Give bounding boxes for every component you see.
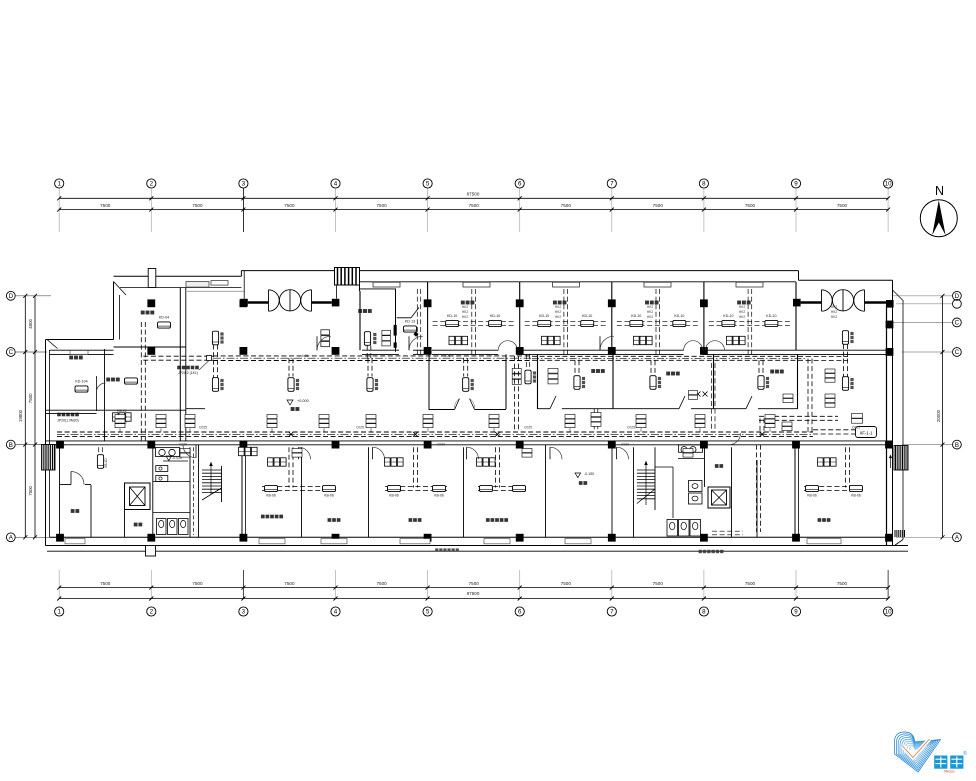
- storage room label (mimic): [71, 509, 75, 513]
- shaft vertical duct: [514, 356, 516, 430]
- bottom band partition x=368: [368, 447, 370, 537]
- svg-text:7500: 7500: [100, 203, 111, 208]
- svg-text:2: 2: [150, 181, 154, 188]
- label stack above XF box: [852, 414, 863, 419]
- svg-text:7500: 7500: [28, 485, 33, 495]
- svg-text:3: 3: [242, 181, 246, 188]
- svg-text:7500: 7500: [100, 581, 111, 586]
- left end unit below B wall: [97, 455, 103, 469]
- room label water pump: [69, 356, 73, 360]
- svg-text:1: 1: [57, 181, 61, 188]
- canopy edge gray line: [187, 290, 244, 292]
- hall level mark: [287, 400, 293, 405]
- wc2 east wall: [731, 447, 733, 537]
- corridor duct label stacks above: [115, 415, 125, 432]
- svg-text:7500: 7500: [745, 203, 756, 208]
- bottom band partition x=463.5: [463, 447, 465, 537]
- doors in B wall lower rooms: [299, 447, 311, 459]
- right vertical dimension line: [942, 296, 944, 538]
- bottom dimension segment line: [59, 587, 888, 589]
- svg-text:7500: 7500: [837, 203, 848, 208]
- middle band room labels: [591, 369, 595, 373]
- building east wall (main, thick): [886, 305, 888, 546]
- bottom band partition x=757: [756, 460, 758, 537]
- middle band room units: [574, 376, 580, 390]
- gas valve junction box: [207, 356, 212, 361]
- svg-text:C025: C025: [627, 426, 635, 430]
- water pump room south wall: [46, 409, 187, 411]
- svg-text:HK2: HK2: [555, 315, 561, 319]
- water pump room unit KD-104: [75, 386, 88, 392]
- bottom text below wall: [699, 550, 702, 553]
- north arrow circle: [920, 200, 957, 237]
- upper-left corner miter: [114, 282, 127, 296]
- bottom room labels: [261, 515, 265, 519]
- entrance2 west jamb column: [793, 299, 801, 307]
- svg-text:®: ®: [963, 750, 967, 757]
- double doors in C wall: [498, 341, 508, 351]
- top grid stub lines: [58, 188, 60, 232]
- svg-text:C: C: [955, 349, 960, 356]
- svg-text:10: 10: [885, 609, 892, 616]
- svg-text:7500: 7500: [653, 203, 664, 208]
- lower-left block corner miter: [47, 340, 58, 349]
- storage room east wall: [90, 485, 92, 537]
- svg-text:KB-06: KB-06: [807, 494, 817, 498]
- vestibule2 L duct to corridor: [807, 359, 809, 435]
- svg-text:7500: 7500: [561, 581, 572, 586]
- svg-text:5: 5: [426, 609, 430, 616]
- svg-text:19800: 19800: [18, 409, 23, 422]
- top band office partitions: [427, 282, 429, 350]
- svg-text:-0.150: -0.150: [584, 472, 594, 476]
- storage room north wall w/ door: [60, 484, 72, 486]
- bottom band partition x=301: [301, 447, 303, 537]
- riser label stacks: [591, 413, 601, 417]
- middle band partitions: [537, 354, 539, 409]
- valve crosses on corridor duct: [289, 432, 294, 437]
- svg-text:HK2: HK2: [647, 310, 653, 314]
- facade window upper-left 1: [186, 282, 209, 288]
- office4 stack labels: [382, 330, 391, 335]
- single doors in C wall: [409, 336, 423, 350]
- wc2 stalls: [667, 520, 678, 537]
- lobby2 door arc: [729, 433, 741, 445]
- svg-text:KD-104: KD-104: [75, 380, 87, 384]
- gas valve note 1: [57, 413, 61, 417]
- svg-text:JP20.2 (1K1): JP20.2 (1K1): [178, 371, 198, 375]
- bottom wall (row A) inner: [50, 536, 893, 538]
- vestibule1 east wall stub: [336, 285, 338, 299]
- walkway south wall stub: [186, 408, 205, 410]
- top dimension line total: [59, 197, 888, 199]
- hall riser at x=291: [288, 358, 290, 376]
- stair1 cut line: [202, 488, 222, 500]
- top grid axis circles 1-10: [55, 179, 64, 188]
- svg-text:4.05: 4.05: [302, 354, 309, 358]
- svg-text:JP20(1.0M20): JP20(1.0M20): [57, 419, 78, 423]
- door water pump room: [97, 383, 106, 392]
- svg-text:KD-10: KD-10: [582, 314, 592, 318]
- logo heart mark: [895, 732, 941, 772]
- entrance1 west jamb column: [240, 299, 248, 307]
- svg-text:C025: C025: [852, 426, 860, 430]
- top band office fan coil units: [446, 320, 459, 326]
- wc2 urinals: [689, 481, 703, 492]
- hall riser at x=215: [213, 345, 215, 378]
- elevator2 shaft: [708, 487, 730, 508]
- svg-text:HK2: HK2: [462, 310, 468, 314]
- svg-text:KB-06: KB-06: [434, 494, 444, 498]
- svg-text:JINGLE: JINGLE: [943, 770, 954, 774]
- svg-text:D: D: [955, 293, 960, 300]
- top dimension ticks: [57, 196, 61, 200]
- louvre grille block at grid4: [335, 268, 360, 286]
- east wall columns: [886, 321, 894, 329]
- stair2 arrow: [644, 461, 648, 465]
- north arrow needle: [932, 200, 945, 235]
- facade window upper-left 2: [211, 281, 228, 286]
- svg-text:7500: 7500: [837, 581, 848, 586]
- office4 fan unit vertical: [364, 332, 370, 346]
- storage room west wall: [59, 447, 61, 537]
- bottom text below wall center: [435, 548, 438, 551]
- left axis leader lines: [15, 295, 51, 297]
- service duct lower right: [712, 530, 743, 532]
- svg-text:3: 3: [242, 609, 246, 616]
- left office unit KB-03: [125, 378, 138, 384]
- svg-text:XF-1-1: XF-1-1: [860, 430, 873, 435]
- east wall corner miter: [893, 290, 904, 301]
- north facade east step: [798, 271, 800, 281]
- svg-text:87500: 87500: [467, 192, 480, 197]
- hall main duct: [213, 355, 531, 357]
- bottom band partition x=612: [611, 447, 613, 537]
- svg-text:B3-4D: B3-4D: [104, 458, 108, 468]
- wc1 urinal fixtures: [156, 466, 168, 472]
- manifold stacks in top offices: [449, 336, 455, 344]
- svg-text:7500: 7500: [469, 203, 480, 208]
- middle rooms main duct run: [532, 355, 806, 357]
- bottom grid stub lines: [58, 570, 60, 599]
- bottom wall windows: [65, 539, 85, 544]
- gas valve note hall: [177, 366, 181, 370]
- right axis circle A: [953, 533, 962, 542]
- bottom band partition x=545.5: [545, 445, 547, 537]
- svg-text:87500: 87500: [467, 591, 480, 596]
- wc1 basins: [159, 449, 165, 455]
- east stair hatch block: [894, 446, 908, 471]
- meeting room double door leaves: [455, 399, 460, 410]
- office4 inner room west wall: [395, 289, 397, 352]
- logo check accent: [903, 739, 930, 758]
- svg-text:7500: 7500: [284, 581, 295, 586]
- elevator1 lobby walls: [124, 483, 126, 537]
- svg-text:7: 7: [610, 181, 614, 188]
- svg-text:6: 6: [518, 609, 522, 616]
- shaft unit: [525, 370, 531, 384]
- entrance1 left door leaf arc: [269, 290, 280, 311]
- svg-text:KB-06: KB-06: [389, 494, 399, 498]
- svg-text:C025: C025: [356, 426, 364, 430]
- bottom exit stub: [146, 546, 156, 557]
- wc1 stalls: [157, 519, 167, 535]
- lobby2 label: [715, 464, 719, 468]
- svg-text:N: N: [935, 184, 944, 198]
- duct elbow corridor to XF box: [813, 429, 855, 431]
- row B wall (y=444.6): [46, 440, 893, 442]
- elevator1 shaft: [125, 483, 151, 510]
- east stair arrow: [890, 456, 892, 468]
- stair2 treads: [637, 469, 655, 471]
- svg-text:7500: 7500: [561, 203, 572, 208]
- stair2 cut line: [637, 489, 655, 504]
- office4 north bay wall: [360, 288, 396, 290]
- left end feeder duct: [98, 447, 100, 454]
- svg-text:1: 1: [57, 609, 61, 616]
- east small hatch at bottom right: [894, 530, 896, 537]
- left riser duct horizontal connect: [143, 355, 213, 357]
- corridor duct label stacks below: [180, 449, 190, 458]
- left vertical dimension lines: [24, 296, 26, 538]
- bottom grid axis circles 1-10: [55, 607, 64, 616]
- west stair hatch block: [42, 445, 56, 471]
- room label food lift hall: [141, 311, 145, 315]
- hall riser at x=370: [366, 346, 368, 359]
- entrance2 left door leaf arc: [822, 290, 833, 311]
- water pump room north wall inner (C row): [50, 349, 114, 351]
- room label office4: [358, 309, 362, 313]
- svg-text:HK2: HK2: [555, 305, 561, 309]
- svg-text:C: C: [9, 349, 14, 356]
- top band office unit connect dashes + manifolds: [433, 321, 515, 323]
- svg-text:2: 2: [150, 609, 154, 616]
- north facade main inner line: [360, 281, 796, 283]
- svg-text:KB-06: KB-06: [266, 494, 276, 498]
- structural columns row C: [147, 347, 155, 355]
- stair2 walls: [633, 447, 635, 537]
- svg-text:9: 9: [794, 609, 798, 616]
- svg-text:4: 4: [334, 609, 338, 616]
- vestibule2 duct riser down: [843, 359, 845, 391]
- stair1 treads: [202, 469, 222, 471]
- top dimension line segments: [59, 209, 888, 211]
- bottom total dimension line: [59, 598, 888, 600]
- office4 unit KD-13: [404, 326, 417, 332]
- bottom band feeders: [288, 447, 290, 487]
- room1 interior label stack: [548, 369, 558, 374]
- building outer wall: lower-left block west wall: [45, 340, 47, 546]
- office4 branch diamond: [413, 332, 418, 337]
- upper-left block north facade outer: [114, 275, 242, 277]
- vestibule2 duct horizontal: [806, 356, 848, 358]
- svg-text:C: C: [955, 320, 960, 327]
- svg-text:7: 7: [610, 609, 614, 616]
- hall 3-stack labels vertical: [321, 330, 330, 335]
- office4 inner room door leaf: [411, 308, 419, 318]
- level mark room 531-612: [575, 473, 581, 478]
- hall east wall x=506: [505, 354, 507, 409]
- left section room wall x=105: [104, 349, 106, 441]
- water pump room window: [70, 351, 88, 355]
- svg-text:C020: C020: [621, 443, 629, 447]
- svg-text:HK2: HK2: [831, 305, 837, 309]
- svg-text:C020: C020: [437, 443, 445, 447]
- front room label (mimic): [134, 523, 138, 527]
- right axis circle C: [953, 348, 962, 357]
- upper-left block west wall: [113, 282, 115, 340]
- wc1 west wall: [152, 447, 154, 537]
- svg-text:HK2: HK2: [647, 305, 653, 309]
- svg-text:KD-10: KD-10: [539, 314, 549, 318]
- upper-left block north facade inner: [120, 287, 241, 289]
- bottom dimension ticks: [57, 586, 61, 590]
- office4 wall blocks: [394, 325, 397, 336]
- svg-text:8: 8: [702, 181, 706, 188]
- office4 inner room south wall: [397, 317, 411, 319]
- svg-text:KD-10: KD-10: [766, 314, 776, 318]
- wc2 basins: [681, 447, 687, 453]
- left riser duct (x=143): [140, 322, 142, 441]
- entrance2 revolving circle: [832, 290, 853, 311]
- wc1 level mark: [166, 456, 172, 461]
- branch duct right mid: [759, 415, 838, 417]
- structural columns row A: [56, 534, 64, 542]
- top band partition at x=360: [359, 291, 361, 350]
- svg-text:HK2: HK2: [739, 305, 745, 309]
- right axis circle 1/D: [953, 299, 962, 308]
- facade flue block: [148, 269, 156, 288]
- meeting room south wall: [429, 409, 455, 411]
- hall unit at left riser top: [212, 331, 218, 345]
- svg-text:HK2: HK2: [555, 310, 561, 314]
- svg-text:D: D: [9, 293, 14, 300]
- right axis circle 1/C: [953, 318, 962, 327]
- svg-text:HK2: HK2: [462, 305, 468, 309]
- svg-text:HK2: HK2: [739, 315, 745, 319]
- svg-text:4.05: 4.05: [444, 354, 451, 358]
- svg-text:KD-10: KD-10: [447, 314, 457, 318]
- row C wall (y=352) segments: [362, 349, 399, 351]
- food lift hall south wall: [114, 346, 187, 348]
- storage door arc: [71, 472, 84, 485]
- svg-text:6: 6: [518, 181, 522, 188]
- hall riser at x=465.7: [463, 358, 465, 376]
- room label office top band: [461, 301, 465, 305]
- manifold stacks in bottom rooms: [268, 458, 274, 466]
- svg-text:KB-06: KB-06: [324, 494, 334, 498]
- vestibule2 units: [842, 331, 848, 345]
- svg-text:7500: 7500: [192, 203, 203, 208]
- entrance1 revolving circle: [279, 290, 300, 311]
- entrance1 right door leaf arc: [301, 290, 312, 311]
- left axis circle C: [6, 348, 15, 357]
- middle room door leaves: [550, 396, 556, 409]
- bottom band room unit pairs: [265, 485, 278, 491]
- structural columns row B: [56, 441, 64, 449]
- lower-left block north wall (water pump room): [46, 339, 114, 341]
- entrance2 east jamb column: [886, 300, 894, 308]
- svg-text:KD-10: KD-10: [490, 314, 500, 318]
- svg-text:KD-10: KD-10: [631, 314, 641, 318]
- wc2 vertical duct: [756, 445, 758, 532]
- svg-text:4: 4: [334, 181, 338, 188]
- bottom band partition x=796 (grid9): [794, 447, 796, 537]
- corridor duct center line: [57, 433, 813, 435]
- hall duct center line: [213, 357, 531, 359]
- svg-text:7500: 7500: [653, 581, 664, 586]
- entrance2 right door leaf arc: [854, 290, 865, 311]
- vestibule2 label stacks: [825, 369, 835, 382]
- middle band room risers: [574, 360, 576, 375]
- svg-text:KB-02: KB-02: [117, 409, 127, 413]
- stair1 arrow: [209, 462, 213, 466]
- logo text JingLe glyph blocks: [934, 756, 947, 769]
- svg-text:B: B: [9, 442, 13, 449]
- partition riser valves and labels: [696, 392, 701, 397]
- left section wall x=180-186 vertical: [179, 288, 181, 442]
- building east wall upper: [892, 280, 894, 305]
- wc1 east wall: [189, 447, 191, 537]
- main corridor duct: [57, 431, 813, 433]
- svg-text:HK2: HK2: [647, 315, 653, 319]
- svg-text:B: B: [955, 442, 959, 449]
- wc1 vertical dashed service line: [193, 447, 195, 535]
- right axis circle B: [953, 440, 962, 449]
- vestibule2 duct riser up: [843, 344, 845, 359]
- hall fan coil units below duct: [212, 378, 218, 392]
- svg-text:7500: 7500: [192, 581, 203, 586]
- svg-text:7500: 7500: [284, 203, 295, 208]
- svg-text:KD-10: KD-10: [674, 314, 684, 318]
- svg-text:8: 8: [702, 609, 706, 616]
- bottom rooms duct runs: [262, 486, 337, 488]
- office4 riser through C wall: [416, 289, 418, 356]
- room label small office left: [106, 378, 110, 382]
- svg-text:7500: 7500: [469, 581, 480, 586]
- left axis circle B: [6, 440, 15, 449]
- wc1 mid partition: [153, 481, 190, 483]
- svg-text:KB-06: KB-06: [851, 494, 861, 498]
- svg-text:20000: 20000: [936, 409, 941, 422]
- left axis circle D: [6, 291, 15, 300]
- right axis circle D: [953, 291, 962, 300]
- right axis leader lines: [893, 295, 952, 297]
- svg-text:10: 10: [885, 181, 892, 188]
- svg-text:+0.000: +0.000: [297, 399, 309, 403]
- door arc B wall wc1: [183, 445, 196, 458]
- middle rooms south wall: [538, 408, 551, 410]
- svg-text:7500: 7500: [376, 203, 387, 208]
- louvre block side wall: [359, 269, 361, 291]
- svg-text:KD-13: KD-13: [405, 320, 415, 324]
- svg-text:9: 9: [794, 181, 798, 188]
- east outer terrace line: [902, 301, 904, 540]
- svg-text:HK2: HK2: [462, 315, 468, 319]
- svg-text:C025: C025: [524, 426, 532, 430]
- bottom wall (row A) outer: [46, 545, 909, 547]
- svg-text:4800: 4800: [28, 318, 33, 328]
- XF-1-1 fan box: [856, 427, 877, 438]
- manifold stack left rooms: [113, 413, 119, 421]
- north facade main outer line: [241, 270, 798, 272]
- svg-text:C025: C025: [199, 426, 207, 430]
- stair1 walls: [198, 445, 200, 537]
- entrance1 lintel walls: [248, 301, 269, 304]
- middle room corridor risers: [593, 409, 595, 432]
- bottom band partition x=243 (grid3): [241, 447, 243, 537]
- structural columns row D: [147, 299, 155, 307]
